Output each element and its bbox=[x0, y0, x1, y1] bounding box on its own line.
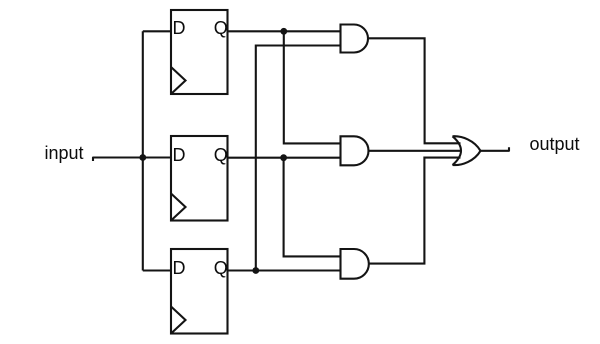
svg-text:input: input bbox=[45, 143, 84, 163]
flip-flop U3 clock triangle bbox=[171, 307, 186, 334]
wire FF3 Q to AND3 input B bbox=[228, 269, 341, 271]
wire AND2 output to OR input 2 bbox=[369, 150, 462, 152]
svg-text:Q: Q bbox=[214, 258, 228, 278]
wire input vertical bus bbox=[142, 31, 144, 270]
gate AND1 bbox=[341, 25, 369, 53]
flip-flop U1 clock triangle bbox=[171, 67, 186, 94]
svg-text:Q: Q bbox=[214, 18, 228, 38]
flip-flop U2 clock triangle bbox=[171, 194, 186, 221]
wire FF1 Q to AND1 input A bbox=[228, 30, 341, 32]
node Q2 junction bbox=[280, 154, 287, 161]
svg-text:D: D bbox=[173, 258, 186, 278]
svg-text:D: D bbox=[173, 145, 186, 165]
wire OR output lead bbox=[481, 147, 510, 151]
wire FF2 Q to AND2 input B bbox=[228, 157, 341, 159]
wire Q2 down to AND3 input A bbox=[284, 158, 341, 257]
node input junction bbox=[139, 154, 146, 161]
svg-text:Q: Q bbox=[214, 145, 228, 165]
wire Q1 down to AND2 input A bbox=[284, 31, 341, 143]
svg-text:output: output bbox=[530, 134, 580, 154]
flip-flop U1 box bbox=[171, 10, 228, 94]
wire to FF1 D bbox=[143, 30, 171, 32]
node Q1 junction bbox=[280, 28, 287, 35]
flip-flop U2 box bbox=[171, 136, 228, 221]
svg-text:D: D bbox=[173, 18, 186, 38]
wire AND1 output to OR input 1 bbox=[368, 38, 461, 143]
wire input lead bbox=[93, 158, 171, 162]
gate AND3 bbox=[341, 249, 369, 279]
gate AND2 bbox=[341, 136, 369, 165]
wire AND3 output to OR input 3 bbox=[369, 158, 461, 264]
wire to FF3 D bbox=[143, 269, 171, 271]
gate OR1 bbox=[453, 136, 481, 165]
node Q3 junction bbox=[252, 267, 259, 274]
wire Q3 up to AND1 input B bbox=[256, 46, 341, 271]
flip-flop U3 box bbox=[171, 249, 228, 334]
